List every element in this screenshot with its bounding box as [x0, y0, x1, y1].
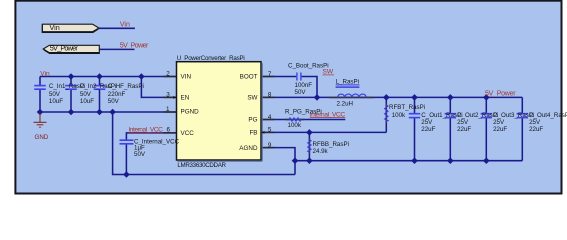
svg-text:EN: EN	[181, 95, 190, 102]
svg-text:C_Out4_RasPi: C_Out4_RasPi	[529, 112, 567, 119]
svg-text:8: 8	[268, 92, 272, 99]
svg-text:L_RasPi: L_RasPi	[336, 78, 359, 85]
svg-text:PG: PG	[248, 117, 257, 124]
svg-text:50V: 50V	[295, 89, 307, 96]
svg-text:Vin: Vin	[40, 70, 50, 77]
svg-text:C_HF_RasPi: C_HF_RasPi	[108, 83, 144, 90]
svg-text:R_PG_RasPi: R_PG_RasPi	[285, 108, 322, 115]
svg-text:9: 9	[268, 142, 272, 149]
svg-text:3: 3	[166, 92, 170, 99]
svg-text:50V: 50V	[49, 91, 61, 98]
svg-text:2.2uH: 2.2uH	[337, 100, 354, 107]
svg-text:GND: GND	[35, 134, 49, 141]
svg-text:1: 1	[166, 106, 170, 113]
svg-text:7: 7	[268, 71, 272, 78]
svg-text:2: 2	[166, 71, 170, 78]
svg-text:BOOT: BOOT	[240, 74, 258, 81]
svg-text:SW: SW	[247, 95, 257, 102]
svg-text:VCC: VCC	[181, 130, 195, 137]
svg-text:VIN: VIN	[181, 74, 192, 81]
svg-text:22uF: 22uF	[421, 126, 435, 133]
svg-text:C_Boot_RasPi: C_Boot_RasPi	[288, 63, 329, 70]
svg-text:5: 5	[268, 127, 272, 134]
svg-text:100k: 100k	[392, 112, 406, 119]
svg-text:Vin: Vin	[120, 21, 130, 28]
svg-text:100k: 100k	[288, 122, 302, 129]
svg-text:RFBT_RasPi: RFBT_RasPi	[389, 104, 425, 111]
svg-text:5V_Power: 5V_Power	[50, 43, 79, 52]
svg-text:22uF: 22uF	[493, 126, 507, 133]
svg-text:RFBB_RasPi: RFBB_RasPi	[313, 141, 349, 148]
svg-text:22uF: 22uF	[457, 126, 471, 133]
svg-text:24.9k: 24.9k	[313, 148, 329, 155]
svg-text:50V: 50V	[80, 91, 92, 98]
svg-text:LMR33630CDDAR: LMR33630CDDAR	[177, 162, 226, 169]
svg-text:10uF: 10uF	[49, 98, 63, 105]
svg-text:4: 4	[268, 114, 272, 121]
svg-text:6: 6	[167, 126, 171, 133]
svg-text:5V_Power: 5V_Power	[120, 43, 149, 50]
svg-text:22uF: 22uF	[529, 126, 543, 133]
svg-text:Vin: Vin	[50, 23, 60, 32]
svg-text:PGND: PGND	[181, 109, 200, 116]
svg-text:U_PowerConverter_RasPi: U_PowerConverter_RasPi	[177, 55, 245, 62]
svg-text:AGND: AGND	[239, 145, 258, 152]
svg-text:220nF: 220nF	[108, 91, 126, 98]
svg-text:50V: 50V	[134, 151, 146, 158]
svg-text:5V_Power: 5V_Power	[485, 91, 516, 98]
svg-text:FB: FB	[249, 130, 257, 137]
svg-text:10uF: 10uF	[80, 98, 94, 105]
svg-text:50V: 50V	[108, 98, 120, 105]
